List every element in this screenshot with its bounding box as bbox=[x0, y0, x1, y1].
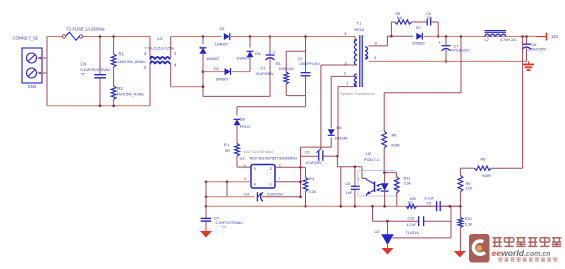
capacitor C9 0.1uF bbox=[425, 197, 441, 212]
wire 12V rail bbox=[424, 35, 537, 38]
wire T1 pin1 bbox=[338, 86, 357, 88]
wire opto cathode drop bbox=[383, 191, 386, 208]
wire T1 pin3 bbox=[321, 65, 357, 150]
svg-text:2: 2 bbox=[344, 72, 346, 76]
wire bottom AC bbox=[47, 104, 150, 107]
resistor R11 3.3k bbox=[394, 173, 410, 207]
svg-text:R9: R9 bbox=[466, 182, 471, 186]
svg-text:R2: R2 bbox=[117, 86, 123, 91]
svg-text:1N4148: 1N4148 bbox=[335, 136, 348, 140]
diode D3 1N4007 bbox=[215, 26, 230, 46]
diode D4 1N4007 bbox=[236, 37, 261, 72]
svg-text:"Y": "Y" bbox=[222, 226, 228, 230]
svg-text:FR107: FR107 bbox=[240, 125, 251, 129]
svg-text:D4: D4 bbox=[255, 51, 261, 56]
svg-text:4: 4 bbox=[344, 32, 346, 36]
svg-text:2.2nF/Y/275VAC: 2.2nF/Y/275VAC bbox=[216, 221, 244, 225]
svg-text:220uF/25V: 220uF/25V bbox=[528, 47, 547, 51]
svg-text:U2: U2 bbox=[366, 151, 371, 156]
capacitor C1 22uF/250V bbox=[256, 37, 276, 97]
svg-text:1N5822: 1N5822 bbox=[412, 42, 425, 46]
wire T1 pin8 out bbox=[369, 36, 392, 46]
svg-text:910R: 910R bbox=[391, 144, 400, 148]
svg-text:C3: C3 bbox=[305, 150, 310, 155]
wire snubber left bbox=[390, 22, 393, 38]
wire clamp bottom bbox=[237, 96, 306, 107]
svg-text:1: 1 bbox=[279, 176, 281, 180]
svg-text:1M/0.5W_AXIAL: 1M/0.5W_AXIAL bbox=[117, 93, 145, 97]
resistor R10 3.3K bbox=[458, 206, 473, 251]
svg-text:EE16: EE16 bbox=[355, 27, 365, 32]
inductor L1 TS-LCL5.8-125B bbox=[144, 36, 178, 70]
svg-text:L2: L2 bbox=[485, 38, 489, 42]
svg-text:0.1uF/X2/275VAC: 0.1uF/X2/275VAC bbox=[81, 68, 112, 72]
wire U1 pin4 stub bbox=[205, 181, 251, 184]
svg-text:CY: CY bbox=[214, 216, 220, 221]
wire D5 bottom row bbox=[301, 146, 332, 148]
svg-text:22uF/250V: 22uF/250V bbox=[256, 72, 275, 76]
svg-text:1: 1 bbox=[346, 81, 348, 85]
wire L1 pin3 drop bbox=[149, 63, 151, 106]
wire L1 pin2 drop bbox=[149, 37, 151, 59]
svg-text:R10: R10 bbox=[465, 217, 472, 221]
svg-text:D3: D3 bbox=[220, 26, 225, 31]
wire 12V feedback drop bbox=[384, 36, 461, 92]
wire row1 gap fix bbox=[417, 205, 462, 208]
capacitor C2 1000PF/1KV bbox=[298, 51, 321, 95]
wire rail C1 to T1 bbox=[270, 35, 355, 38]
svg-text:0R: 0R bbox=[225, 149, 230, 153]
wire top rail L1 to bridge bbox=[171, 35, 222, 38]
wire T1 pin2 bbox=[331, 75, 357, 77]
wire aux junction vertical bbox=[226, 182, 228, 197]
svg-text:CONN2-7_92: CONN2-7_92 bbox=[13, 36, 39, 41]
resistor R5 NA bbox=[391, 12, 426, 24]
shunt-ref U3 TL431A bbox=[375, 221, 452, 248]
svg-text:3.3K: 3.3K bbox=[465, 223, 473, 227]
svg-text:12V: 12V bbox=[551, 34, 559, 39]
svg-text:R3: R3 bbox=[276, 61, 281, 66]
svg-text:C5: C5 bbox=[345, 181, 350, 186]
wire D7 row bbox=[391, 35, 413, 37]
watermark eeworld url bbox=[492, 248, 551, 258]
wire T1 pin4 bbox=[354, 37, 356, 40]
resistor R6 910R bbox=[460, 156, 522, 178]
svg-text:R4: R4 bbox=[309, 176, 315, 181]
wire rail D3 to C1 bbox=[231, 35, 271, 38]
capacitor CY 2.2nF/Y/275VAC bbox=[201, 206, 244, 231]
resistor R-L 0R bbox=[224, 143, 251, 167]
svg-text:C4: C4 bbox=[244, 191, 250, 196]
fuse F1 bbox=[62, 27, 105, 41]
svg-text:R-L: R-L bbox=[224, 143, 230, 147]
transformer T1 EE16 flyback bbox=[344, 21, 377, 88]
wire secondary gnd rail bbox=[369, 60, 527, 62]
resistor R3 100K/1W bbox=[276, 51, 295, 95]
diode D5 1N4148 bbox=[328, 76, 348, 147]
svg-text:3: 3 bbox=[244, 163, 246, 167]
svg-text:6: 6 bbox=[374, 56, 376, 60]
wire L1 pin1 rise bbox=[170, 37, 172, 59]
svg-text:8: 8 bbox=[375, 41, 377, 45]
svg-text:D1: D1 bbox=[200, 45, 205, 50]
svg-text:L1: L1 bbox=[158, 36, 163, 41]
wire C10 row bbox=[371, 205, 451, 223]
wire opto gnd vertical bbox=[340, 167, 343, 208]
wire snubber right bbox=[437, 22, 440, 38]
capacitor C7 470uF/25V bbox=[439, 37, 471, 63]
svg-text:D2: D2 bbox=[214, 66, 219, 71]
svg-text:Flyback Transformer: Flyback Transformer bbox=[340, 91, 376, 96]
wire R6 rise bbox=[522, 37, 524, 169]
svg-text:C2: C2 bbox=[298, 56, 303, 61]
wire VCC row C3 bbox=[301, 155, 339, 158]
svg-text:CX: CX bbox=[81, 62, 87, 67]
diode D2 1N4007 bbox=[203, 66, 250, 82]
diode D6 FR107 bbox=[234, 107, 251, 144]
svg-text:U3: U3 bbox=[375, 229, 380, 234]
svg-text:"X": "X" bbox=[81, 73, 87, 77]
svg-text:0.1uF: 0.1uF bbox=[425, 197, 435, 201]
wire bottom rail row1 bbox=[206, 205, 460, 207]
capacitor C6 NA bbox=[426, 12, 438, 25]
svg-text:2: 2 bbox=[279, 163, 281, 167]
svg-text:+: + bbox=[273, 50, 276, 55]
ground primary chassis bbox=[200, 231, 212, 238]
wire clamp top bbox=[286, 37, 305, 52]
resistor R9 12K bbox=[458, 168, 473, 206]
svg-text:(U5+221/65 Max): (U5+221/65 Max) bbox=[244, 150, 274, 154]
resistor R2 1M/0.5W_AXIAL bbox=[111, 86, 144, 106]
resistor R4 3.3K bbox=[303, 167, 317, 207]
svg-text:3.3K: 3.3K bbox=[309, 190, 317, 194]
svg-text:T1: T1 bbox=[357, 21, 362, 26]
svg-text:C9: C9 bbox=[427, 201, 432, 205]
svg-text:TL431A: TL431A bbox=[406, 231, 420, 235]
wire ref vertical bbox=[450, 206, 452, 238]
svg-text:C8: C8 bbox=[532, 42, 537, 47]
svg-text:1nF: 1nF bbox=[346, 191, 353, 195]
svg-text:C1: C1 bbox=[261, 66, 266, 71]
wire connector arrows bbox=[37, 57, 47, 75]
capacitor CX 0.1uF/X2/275VAC bbox=[81, 37, 112, 106]
wire primary gnd vertical bbox=[205, 182, 208, 208]
capacitor C8 220uF/25V bbox=[522, 37, 547, 62]
op-amp U1 NCP1014ST65T3G bbox=[240, 150, 298, 188]
capacitor C10 4.7uF bbox=[407, 216, 424, 227]
ground R10 bbox=[454, 251, 466, 258]
svg-text:T.S-LCL5.8-125B: T.S-LCL5.8-125B bbox=[145, 46, 175, 50]
svg-text:CN4: CN4 bbox=[28, 84, 37, 89]
svg-text:910R: 910R bbox=[482, 174, 491, 178]
wire L1 pin4 out bbox=[171, 63, 203, 87]
svg-text:D6: D6 bbox=[240, 117, 245, 122]
svg-text:U1: U1 bbox=[240, 156, 246, 161]
ground secondary bbox=[523, 61, 534, 70]
svg-text:1N4007: 1N4007 bbox=[215, 42, 228, 46]
capacitor C3 47uF/25V bbox=[305, 149, 323, 165]
svg-text:1M/0.5W_AXIAL: 1M/0.5W_AXIAL bbox=[118, 60, 146, 64]
capacitor C4 22uF/25V bbox=[205, 191, 301, 201]
resistor R7 10K bbox=[406, 197, 416, 208]
svg-text:12K: 12K bbox=[466, 186, 473, 190]
svg-text:R7: R7 bbox=[408, 201, 413, 205]
svg-text:4: 4 bbox=[244, 177, 246, 181]
node 12V output terminal bbox=[536, 33, 559, 41]
wire top rail fuse to L1 bbox=[83, 35, 150, 38]
svg-text:C10: C10 bbox=[408, 217, 415, 221]
svg-text:NA: NA bbox=[397, 16, 403, 20]
watermark slogan bbox=[499, 257, 558, 261]
watermark chinese title bbox=[493, 237, 562, 247]
svg-text:100K/1W: 100K/1W bbox=[279, 67, 295, 71]
diode D1 1N4007 bbox=[200, 37, 220, 97]
svg-text:F1 FUSE 1A 250Vac: F1 FUSE 1A 250Vac bbox=[67, 27, 105, 32]
resistor R8 910R bbox=[382, 93, 400, 173]
diode D7 1N5822 bbox=[412, 25, 425, 46]
opto U2 PC817-C bbox=[358, 151, 396, 196]
wire VCC vertical bbox=[299, 147, 302, 198]
wire opto left pin bbox=[358, 167, 367, 182]
svg-text:4.7uF: 4.7uF bbox=[407, 223, 417, 227]
svg-text:1N4007: 1N4007 bbox=[206, 57, 219, 61]
ground TL431 bbox=[382, 248, 394, 255]
resistor R1 1M/0.5W_AXIAL bbox=[111, 37, 145, 87]
capacitor C5 1nF bbox=[345, 167, 360, 208]
inductor L2 4.7uH 2A bbox=[485, 31, 517, 43]
svg-text:R11: R11 bbox=[404, 175, 411, 180]
wire T1 pin1 drop bbox=[336, 87, 339, 157]
svg-text:R1: R1 bbox=[119, 52, 125, 57]
wire AC top to fuse bbox=[47, 36, 63, 38]
svg-text:1N4007: 1N4007 bbox=[216, 77, 229, 81]
wire DC minus rail bbox=[203, 95, 270, 97]
svg-text:R8: R8 bbox=[392, 132, 397, 137]
svg-text:3.3k: 3.3k bbox=[404, 182, 411, 186]
wire opto top row bbox=[337, 156, 362, 168]
svg-text:1000PF/1KV: 1000PF/1KV bbox=[299, 62, 320, 66]
label flyback transformer bbox=[340, 91, 376, 96]
svg-text:1N4007: 1N4007 bbox=[236, 57, 249, 61]
wire U1 pin1 stub bbox=[275, 181, 301, 183]
connector CN4 CONN2-7_92 bbox=[13, 36, 43, 89]
svg-text:NCP1014ST65T3G/65KHz: NCP1014ST65T3G/65KHz bbox=[250, 156, 298, 161]
watermark eeworld logo bbox=[469, 234, 490, 263]
wire AC live vertical bbox=[46, 37, 48, 106]
svg-text:D5: D5 bbox=[337, 125, 342, 130]
wire opto anode row bbox=[383, 171, 396, 174]
svg-text:R6: R6 bbox=[481, 156, 486, 161]
svg-text:D7: D7 bbox=[416, 25, 421, 30]
svg-text:47uF/25V: 47uF/25V bbox=[306, 161, 323, 165]
wire U1 pin2 stub bbox=[275, 166, 306, 169]
svg-text:4.7uH 2A: 4.7uH 2A bbox=[500, 38, 516, 42]
svg-text:NA: NA bbox=[427, 16, 433, 20]
svg-text:PC817-C: PC817-C bbox=[364, 158, 380, 162]
svg-text:22uF/25V: 22uF/25V bbox=[267, 192, 284, 196]
